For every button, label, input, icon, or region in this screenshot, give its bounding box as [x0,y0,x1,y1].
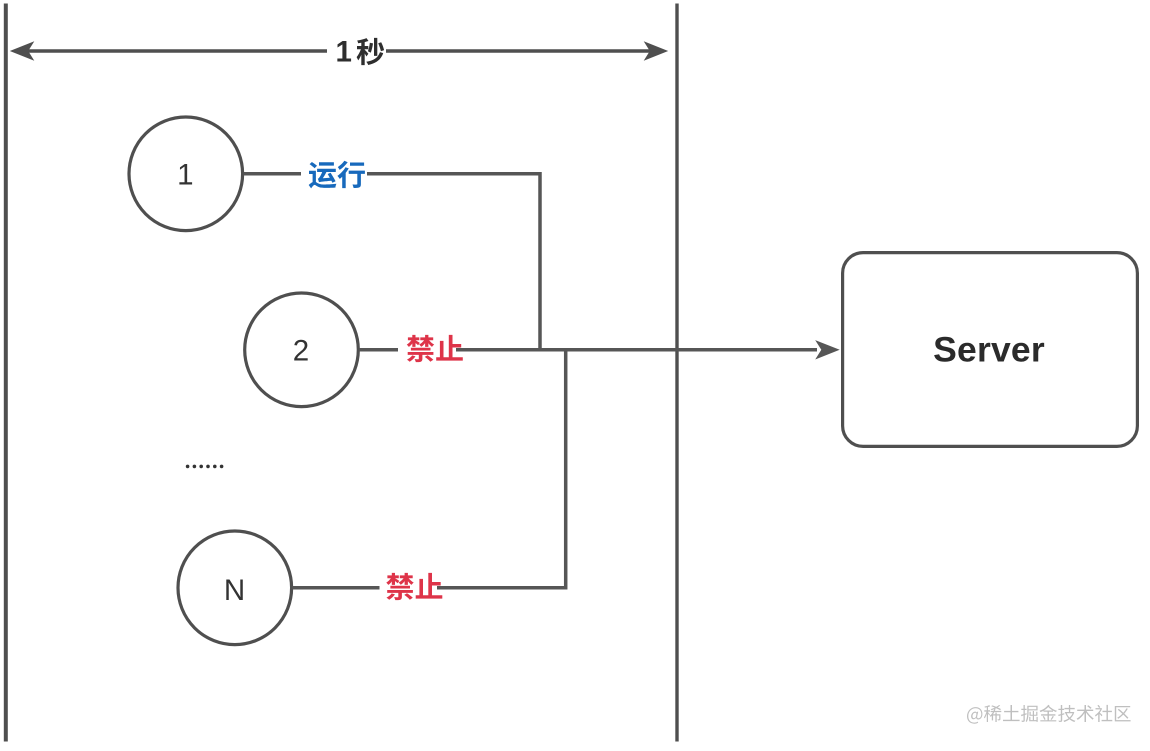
arrowhead into server [815,340,840,359]
watermark @稀土掘金技术社区 [967,705,1131,724]
svg-text:1: 1 [177,158,193,191]
thread 2 node circle [245,293,359,407]
wire: thread N up to main wire [293,352,566,590]
thread N node circle [178,531,292,645]
ellipsis dots [186,465,224,469]
wire: thread 1 to corner junction [244,174,541,348]
label: 1 秒 (CJK) [357,38,385,65]
label: 禁止 (forbidden, thread 2) [407,335,463,362]
label: 运行 (run) [309,161,365,189]
server box [843,253,1138,447]
right time-window boundary line [675,4,678,742]
thread 1 node circle [129,117,243,231]
1-second arrow right head [644,41,669,60]
1-second arrow left head [10,41,35,60]
label: 禁止 (forbidden, thread N) [386,573,442,600]
svg-text:Server: Server [933,329,1045,369]
left time-window boundary line [4,4,8,742]
1-second interval double arrow shaft [28,49,650,52]
wire: thread 2 toward server [359,348,817,352]
svg-text:N: N [224,574,245,607]
svg-text:2: 2 [293,334,309,367]
svg-text:1: 1 [336,36,352,69]
